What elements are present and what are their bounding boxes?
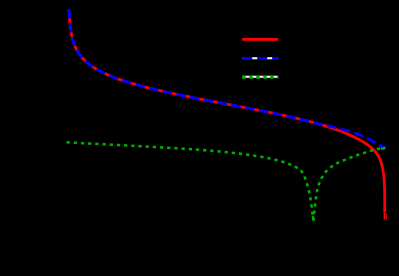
legend sample 3 white underlay <box>242 76 278 78</box>
legend sample 2 white underlay <box>242 57 278 59</box>
legend sample 3: green dashed line <box>242 76 278 79</box>
green cusp vertex dot <box>312 216 315 220</box>
curve: approximation (blue dashed) <box>69 9 386 148</box>
green last dash near right edge <box>381 147 385 150</box>
curve: difference (green dashed) <box>67 142 386 219</box>
curve: exact result (red solid) <box>69 9 385 212</box>
red curve thin tail left <box>383 210 385 220</box>
legend sample 1: red solid line <box>242 38 278 41</box>
red curve thin tail right <box>385 213 387 220</box>
legend sample 2: blue dashed line <box>242 57 278 60</box>
